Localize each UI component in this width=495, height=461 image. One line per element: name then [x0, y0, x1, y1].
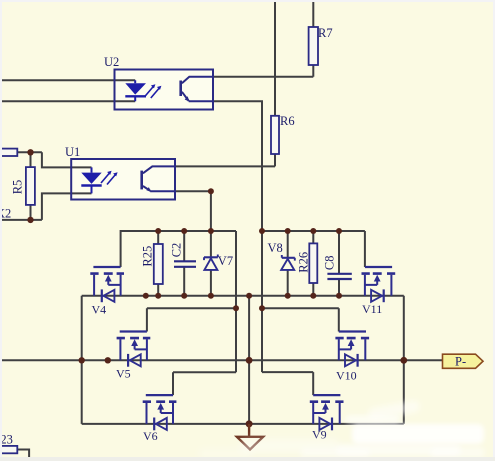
- svg-text:V5: V5: [116, 367, 131, 381]
- svg-text:U1: U1: [65, 145, 80, 159]
- svg-text:P-: P-: [455, 355, 466, 369]
- svg-text:V11: V11: [362, 302, 382, 316]
- svg-text:C8: C8: [323, 256, 337, 271]
- svg-text:V4: V4: [92, 303, 107, 317]
- svg-text:V7: V7: [218, 254, 233, 268]
- svg-text:R25: R25: [141, 246, 155, 267]
- svg-text:R26: R26: [296, 252, 310, 273]
- svg-text:R7: R7: [318, 26, 333, 40]
- svg-text:V8: V8: [268, 241, 283, 255]
- svg-text:V6: V6: [143, 429, 158, 443]
- svg-text:U2: U2: [104, 55, 119, 69]
- svg-text:R6: R6: [280, 114, 295, 128]
- svg-text:C2: C2: [169, 243, 183, 258]
- svg-text:V10: V10: [336, 369, 357, 383]
- svg-text:R5: R5: [11, 180, 25, 195]
